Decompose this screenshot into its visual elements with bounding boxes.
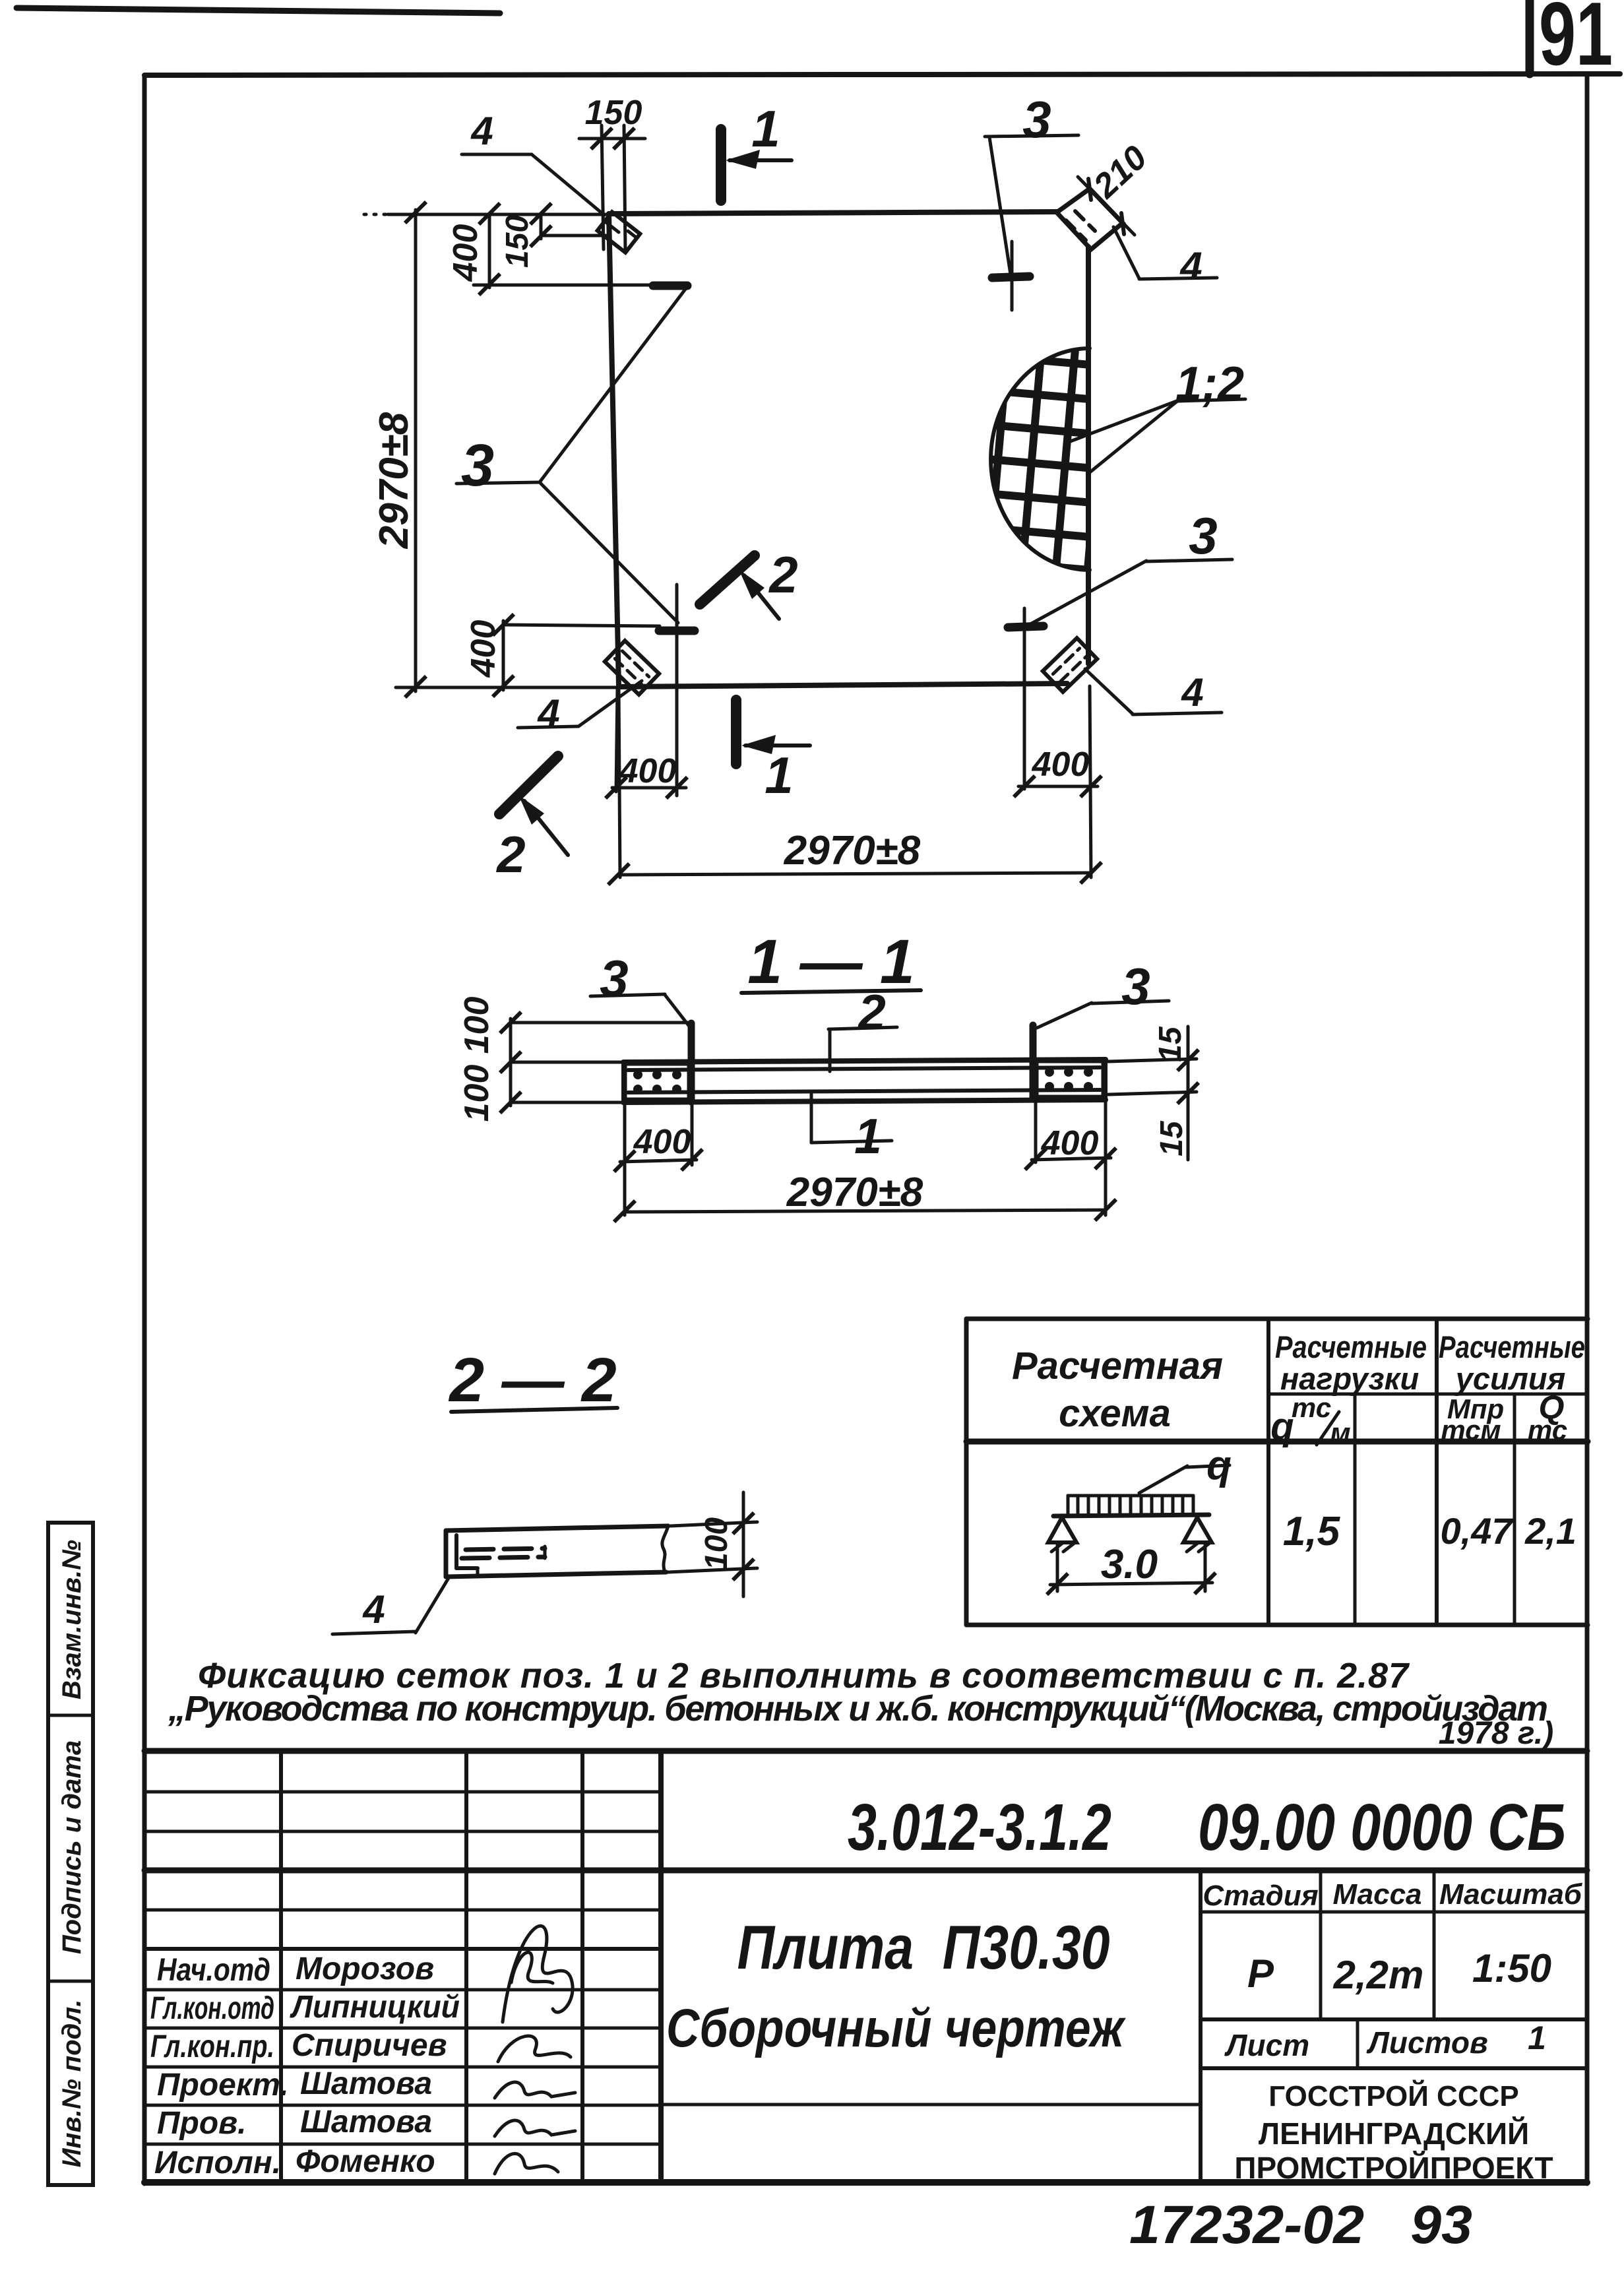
svg-text:400: 400 (464, 620, 503, 678)
svg-text:q: q (1206, 1443, 1232, 1488)
svg-text:Гл.кон.пр.: Гл.кон.пр. (150, 2029, 274, 2064)
svg-text:тс: тс (1292, 1392, 1331, 1423)
svg-text:1: 1 (751, 100, 780, 158)
svg-text:Подпись и дата: Подпись и дата (57, 1740, 86, 1954)
svg-text:1,5: 1,5 (1283, 1509, 1341, 1554)
svg-text:3: 3 (461, 433, 494, 499)
svg-text:Шатова: Шатова (300, 2066, 432, 2101)
svg-text:Расчетная: Расчетная (1012, 1345, 1223, 1387)
svg-text:Фоменко: Фоменко (296, 2144, 435, 2179)
svg-text:Морозов: Морозов (296, 1951, 434, 1986)
svg-text:400: 400 (447, 224, 485, 282)
svg-text:тсм: тсм (1441, 1414, 1501, 1445)
svg-text:1978 г.): 1978 г.) (1439, 1716, 1553, 1751)
svg-text:400: 400 (633, 1123, 691, 1161)
svg-text:Липницкий: Липницкий (290, 1990, 460, 2025)
svg-text:Плита П30.30: Плита П30.30 (737, 1913, 1110, 1982)
svg-text:3: 3 (1121, 957, 1150, 1015)
svg-text:4: 4 (537, 691, 559, 736)
svg-text:Нач.отд: Нач.отд (157, 1953, 270, 1988)
svg-text:„Руководства по конструир. бет: „Руководства по конструир. бетонных и ж.… (168, 1689, 1548, 1728)
svg-text:Лист: Лист (1224, 2028, 1309, 2062)
svg-text:100: 100 (458, 1065, 496, 1122)
svg-text:2: 2 (768, 546, 797, 604)
svg-text:Листов: Листов (1366, 2025, 1487, 2060)
svg-text:Спиричев: Спиричев (292, 2028, 447, 2063)
svg-text:0,47: 0,47 (1441, 1510, 1515, 1552)
svg-text:Масштаб: Масштаб (1439, 1878, 1583, 1911)
svg-text:Расчетные: Расчетные (1275, 1329, 1427, 1364)
svg-text:Инв.№ подл.: Инв.№ подл. (57, 2000, 86, 2168)
svg-text:ЛЕНИНГРАДСКИЙ: ЛЕНИНГРАДСКИЙ (1259, 2116, 1529, 2151)
svg-text:3.012-3.1.2: 3.012-3.1.2 (848, 1791, 1111, 1864)
svg-text:09.00 0000 СБ: 09.00 0000 СБ (1198, 1791, 1566, 1864)
svg-text:2,2т: 2,2т (1333, 1953, 1424, 1997)
svg-text:схема: схема (1059, 1392, 1171, 1435)
svg-text:4: 4 (1181, 670, 1203, 714)
svg-text:Шатова: Шатова (300, 2105, 432, 2139)
svg-text:100: 100 (699, 1517, 734, 1570)
svg-text:Стадия: Стадия (1202, 1880, 1318, 1912)
svg-text:100: 100 (458, 997, 496, 1054)
svg-text:150: 150 (500, 215, 535, 268)
svg-text:15: 15 (1153, 1026, 1188, 1062)
svg-text:тс: тс (1528, 1414, 1567, 1445)
svg-text:4: 4 (362, 1587, 385, 1632)
svg-text:2: 2 (495, 825, 525, 883)
svg-text:Сборочный чертеж: Сборочный чертеж (666, 1998, 1126, 2058)
svg-text:400: 400 (1032, 745, 1090, 784)
svg-text:4: 4 (470, 109, 493, 153)
svg-text:15: 15 (1154, 1120, 1189, 1157)
svg-text:2970±8: 2970±8 (786, 1170, 923, 1215)
svg-text:4: 4 (1179, 244, 1202, 288)
svg-text:м: м (1330, 1417, 1350, 1448)
svg-text:1;2: 1;2 (1175, 358, 1244, 410)
svg-text:Расчетные: Расчетные (1439, 1329, 1585, 1364)
svg-text:Р: Р (1247, 1951, 1274, 1996)
svg-text:2,1: 2,1 (1524, 1510, 1577, 1552)
svg-text:2: 2 (857, 984, 886, 1040)
svg-text:нагрузки: нагрузки (1280, 1361, 1419, 1396)
svg-text:Исполн.: Исполн. (154, 2145, 281, 2180)
svg-text:3.0: 3.0 (1101, 1542, 1158, 1587)
svg-text:Гл.кон.отд: Гл.кон.отд (150, 1991, 274, 2026)
svg-text:3: 3 (600, 949, 628, 1007)
svg-text:91: 91 (1539, 0, 1613, 84)
svg-text:ГОССТРОЙ СССР: ГОССТРОЙ СССР (1268, 2079, 1518, 2112)
svg-text:Пров.: Пров. (157, 2106, 247, 2141)
svg-text:2970±8: 2970±8 (784, 828, 921, 873)
svg-text:1 — 1: 1 — 1 (747, 927, 914, 997)
svg-text:1: 1 (765, 746, 793, 804)
svg-text:q: q (1270, 1405, 1294, 1448)
svg-text:1: 1 (854, 1108, 882, 1164)
svg-text:150: 150 (585, 94, 642, 132)
svg-text:17232-02 93: 17232-02 93 (1129, 2195, 1472, 2255)
svg-text:ПРОМСТРОЙПРОЕКТ: ПРОМСТРОЙПРОЕКТ (1234, 2151, 1553, 2185)
svg-text:2970±8: 2970±8 (371, 412, 417, 549)
svg-text:400: 400 (1041, 1124, 1099, 1162)
svg-text:Проект.: Проект. (157, 2068, 289, 2103)
svg-text:3: 3 (1189, 507, 1217, 565)
svg-text:1: 1 (1528, 2019, 1546, 2056)
svg-text:Взам.инв.№: Взам.инв.№ (57, 1540, 86, 1699)
svg-text:2 — 2: 2 — 2 (448, 1345, 616, 1415)
svg-text:Масса: Масса (1332, 1878, 1421, 1911)
svg-text:3: 3 (1022, 90, 1051, 148)
svg-text:400: 400 (619, 752, 677, 790)
svg-text:1:50: 1:50 (1472, 1946, 1551, 1990)
